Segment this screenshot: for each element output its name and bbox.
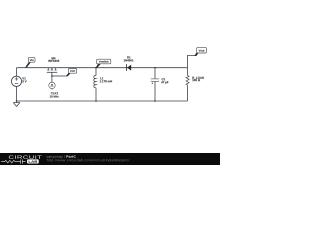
credit line <box>47 155 65 158</box>
label D1 1N4001 <box>124 56 134 61</box>
logo CIRCUIT text <box>9 155 42 158</box>
node flag Vswitch <box>96 59 111 67</box>
logo capacitor <box>17 159 26 163</box>
node junction C1 bottom <box>154 100 156 102</box>
inductor L1 <box>94 75 96 87</box>
label V1 value <box>22 77 26 82</box>
node junction L1 bottom <box>95 100 97 102</box>
node flag Vin <box>25 57 35 67</box>
voltage source V1 <box>11 76 21 86</box>
wire L1 top <box>95 68 97 76</box>
wire gate to CLK flag <box>52 75 66 77</box>
footer bar <box>0 153 220 166</box>
wire C1 bottom <box>154 81 156 101</box>
label R_LOAD value <box>192 77 204 81</box>
resistor R_LOAD <box>186 75 189 85</box>
node junction gate <box>51 75 53 77</box>
wire Vout riser <box>188 55 195 67</box>
label CLK1 value <box>50 92 59 97</box>
node junction C1 top <box>154 67 156 69</box>
node flag CLK <box>66 69 77 77</box>
wire C1 top <box>154 68 156 79</box>
node junction Vswitch <box>95 67 97 69</box>
diode D1 <box>127 64 132 71</box>
node flag Vout <box>194 47 206 56</box>
wire gate down <box>51 72 53 82</box>
logo LAB box <box>27 159 39 163</box>
wire L1 bottom <box>95 88 97 101</box>
node junction V1 ground <box>16 100 18 102</box>
url line <box>47 158 129 161</box>
label C1 value <box>161 78 168 84</box>
label M4 IRF5305 <box>48 57 59 62</box>
logo resistor zigzag <box>1 160 17 162</box>
capacitor C1 <box>151 79 159 84</box>
label L1 value <box>100 77 112 82</box>
wire R bottom <box>187 85 189 101</box>
wire top rail <box>17 67 188 69</box>
clock source CLK1 <box>49 82 55 89</box>
wire V1 bottom vertical <box>16 86 18 101</box>
wire R top <box>187 68 189 76</box>
ground <box>13 101 19 107</box>
wire bottom rail <box>17 100 188 102</box>
transistor M4 <box>47 68 57 73</box>
wire V1 top vertical <box>16 68 18 77</box>
